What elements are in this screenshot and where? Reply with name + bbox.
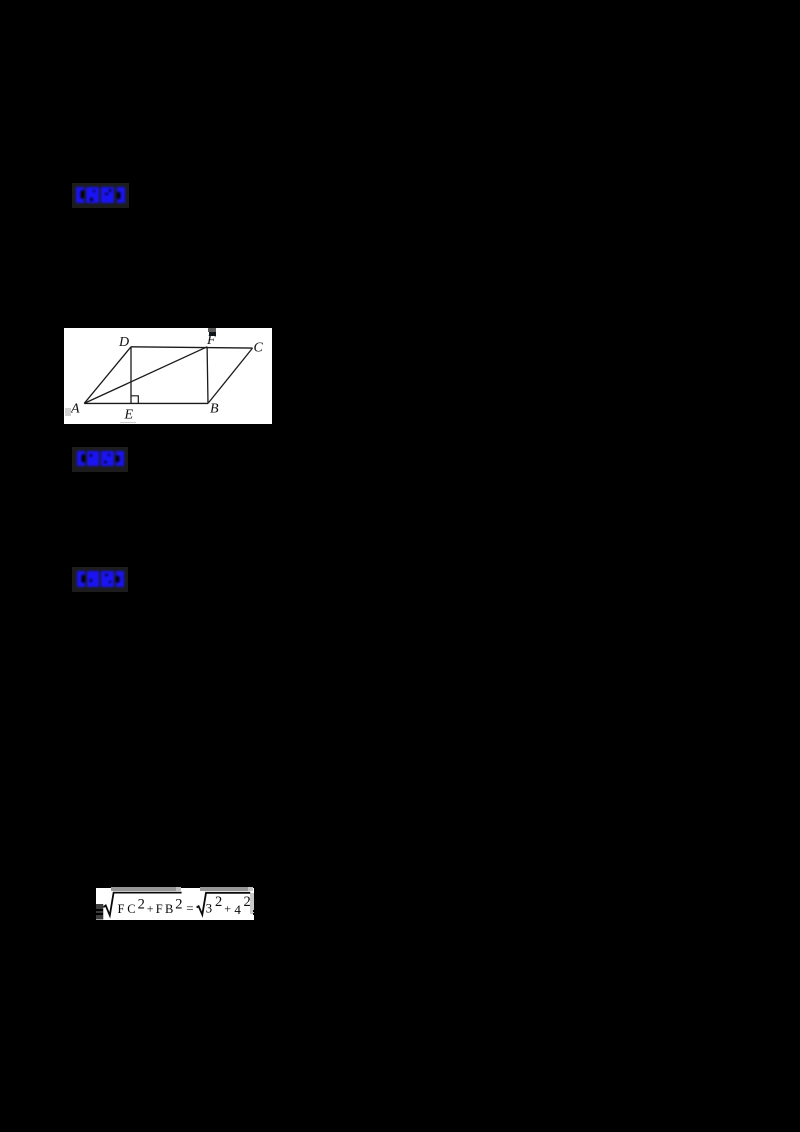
dark handle bottom-left corner [96,904,103,920]
diagonal AF [84,347,207,404]
light gray handle near A [65,408,71,416]
altitude DE [130,347,132,404]
svg-text:2: 2 [175,897,182,913]
svg-text:+: + [146,901,153,915]
svg-text:B: B [165,902,173,916]
gray bar over first radical [111,887,176,891]
svg-text:=: = [186,900,193,915]
label 【答案】 (blue answer tag, blurred) [72,183,129,208]
side AD [84,347,131,404]
svg-text:D: D [118,335,129,350]
formula box (white panel with radicals) [96,888,254,920]
svg-text:E: E [124,407,134,422]
right-angle mark at E [131,396,138,404]
svg-text:F: F [155,902,162,916]
svg-text:A: A [70,401,80,416]
svg-text:2: 2 [215,894,222,910]
black equals over handle [94,909,103,911]
svg-text:C: C [127,902,135,916]
small black equals at right edge of formula [253,910,257,912]
segment FB [206,347,209,404]
label 【详解】 (blue solution tag, blurred) [72,567,128,592]
gray selection handle above F [208,328,216,333]
svg-text:C: C [254,341,264,356]
svg-text:4: 4 [234,902,241,917]
gray bar over second radical [200,887,247,891]
radical sign 1 with vinculum [103,893,181,916]
svg-text:2: 2 [137,897,144,913]
side AB [84,402,208,404]
faint underline below E [120,422,136,424]
label 【分析】 (blue analysis tag, blurred) [72,447,128,472]
gray strip right edge [250,893,254,914]
dark handle part over F [209,332,216,336]
svg-text:3: 3 [205,900,212,915]
side BC [208,348,253,403]
svg-text:F: F [117,902,124,916]
figure box (white panel with parallelogram diagram) [64,328,272,424]
svg-text:B: B [210,402,219,417]
svg-text:+: + [224,902,231,916]
radical sign 2 with vinculum [196,893,250,915]
svg-text:2: 2 [243,894,250,910]
side DC [131,347,253,348]
